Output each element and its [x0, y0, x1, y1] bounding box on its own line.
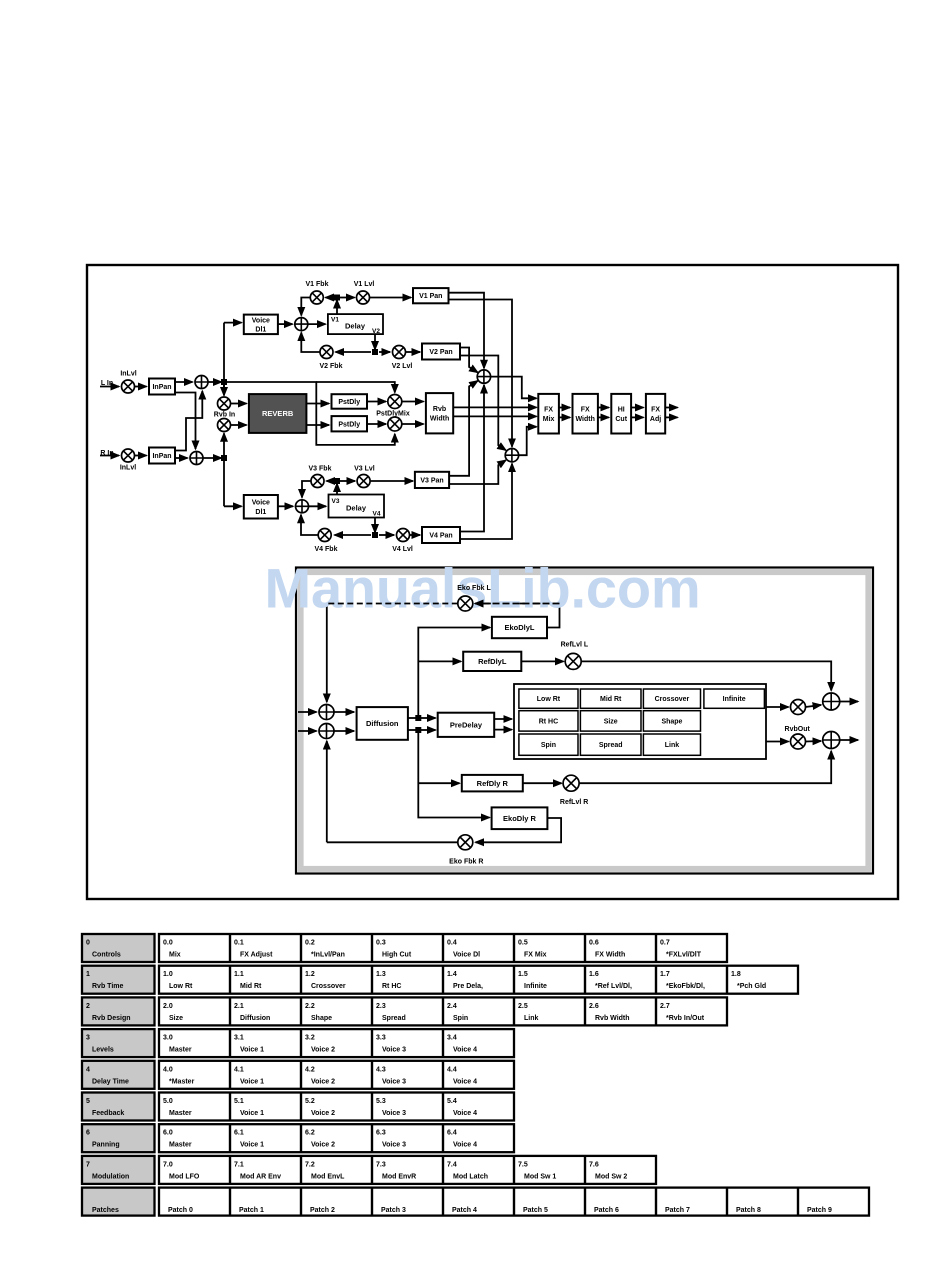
wire Hi Cut to FX Adj R	[631, 416, 643, 418]
svg-text:4.4: 4.4	[447, 1066, 457, 1073]
svg-text:Spread: Spread	[382, 1015, 406, 1022]
wire InLvl L to InPan L	[135, 386, 147, 388]
svg-text:Master: Master	[169, 1110, 192, 1117]
svg-text:Voice 3: Voice 3	[382, 1047, 406, 1054]
wire Hi Cut to FX Adj L	[631, 407, 643, 409]
multiplier PstDlyMix bottom	[388, 417, 402, 431]
svg-text:V4 Fbk: V4 Fbk	[315, 546, 338, 553]
wire FX Adj out R	[665, 416, 677, 418]
svg-text:V2 Fbk: V2 Fbk	[320, 363, 343, 370]
svg-text:FX Adjust: FX Adjust	[240, 952, 273, 959]
svg-text:7.2: 7.2	[305, 1161, 315, 1168]
wire V4 Pan L to mix sum L	[460, 385, 484, 532]
svg-text:Spin: Spin	[453, 1015, 468, 1022]
wire out R	[840, 739, 858, 741]
wire detail input L	[298, 711, 317, 713]
svg-text:EkoDly R: EkoDly R	[503, 814, 537, 823]
svg-text:Mod EnvR: Mod EnvR	[382, 1173, 416, 1180]
wire riser down to EkoDly R	[418, 730, 489, 818]
box V4 Pan	[422, 527, 460, 543]
svg-text:V1 Lvl: V1 Lvl	[354, 281, 375, 288]
grid cell Mid Rt	[580, 689, 641, 708]
svg-text:0: 0	[86, 940, 90, 947]
box V2 Pan	[422, 344, 460, 360]
svg-text:Mod LFO: Mod LFO	[169, 1173, 200, 1180]
svg-text:HI: HI	[618, 407, 625, 414]
multiplier PstDlyMix top	[388, 395, 402, 409]
svg-text:V2 Lvl: V2 Lvl	[392, 363, 413, 370]
svg-text:Mod Sw 1: Mod Sw 1	[524, 1173, 556, 1180]
svg-text:Crossover: Crossover	[655, 696, 690, 703]
svg-text:Delay Time: Delay Time	[92, 1078, 129, 1085]
wire Voice Dl1 to V1 sum	[278, 323, 293, 325]
wire V4 tap down	[374, 518, 376, 533]
svg-text:Patch 6: Patch 6	[594, 1207, 619, 1214]
wire mix sum L to FX Mix	[491, 377, 537, 399]
svg-text:3.4: 3.4	[447, 1035, 457, 1042]
multiplier Rvb In bottom	[218, 419, 231, 432]
box V1 Delay	[328, 314, 383, 335]
svg-text:Patch 1: Patch 1	[239, 1207, 264, 1214]
grid cell Crossover	[643, 689, 700, 708]
wire V3 Pan L to mix sum L	[449, 381, 478, 476]
wire Eko Fbk R to detail sum R	[326, 741, 328, 842]
multiplier RefLvl R	[563, 775, 579, 791]
svg-text:Link: Link	[665, 742, 679, 749]
wire V3 tap to V3 Lvl	[340, 480, 355, 482]
svg-text:2: 2	[86, 1003, 90, 1010]
box PstDly top	[332, 394, 368, 409]
svg-text:5.1: 5.1	[234, 1098, 244, 1105]
wire V2 Pan R to mix sum R	[460, 356, 506, 451]
junction trunk R	[221, 455, 227, 461]
wire RefDly R to RefLvl R	[523, 782, 562, 784]
svg-text:7.1: 7.1	[234, 1161, 244, 1168]
multiplier Rvb In top	[218, 397, 231, 410]
svg-text:0.1: 0.1	[234, 940, 244, 947]
svg-text:V3 Pan: V3 Pan	[420, 477, 443, 484]
multiplier V3 Lvl	[357, 475, 370, 488]
multiplier RefLvl L	[565, 653, 581, 669]
wire V2 tap down	[374, 334, 376, 349]
wire Eko Fbk R to left riser	[327, 841, 458, 843]
svg-text:Rvb Time: Rvb Time	[92, 983, 123, 990]
svg-text:V3 Lvl: V3 Lvl	[354, 466, 375, 473]
wire V2 Lvl to V2 Pan	[406, 351, 420, 353]
wire PreDelay out top	[494, 718, 512, 720]
wire Diffusion out bottom	[408, 729, 416, 731]
box Voice Dl1 bottom	[244, 495, 278, 519]
wire Voice Dl1 to V3 sum	[278, 505, 293, 507]
svg-text:3.3: 3.3	[376, 1035, 386, 1042]
svg-text:6: 6	[86, 1130, 90, 1137]
wire mix sum R to FX Mix	[519, 427, 537, 455]
svg-text:*Master: *Master	[169, 1078, 195, 1085]
svg-text:FX: FX	[651, 407, 660, 414]
svg-text:Modulation: Modulation	[92, 1173, 129, 1180]
svg-text:7: 7	[86, 1161, 90, 1168]
svg-text:Pre Dela,: Pre Dela,	[453, 983, 483, 990]
box HI Cut	[611, 394, 631, 434]
svg-text:0.6: 0.6	[589, 940, 599, 947]
box RefDlyL	[463, 652, 521, 671]
svg-text:6.4: 6.4	[447, 1130, 457, 1137]
svg-text:6.0: 6.0	[163, 1130, 173, 1137]
svg-text:Crossover: Crossover	[311, 983, 346, 990]
wire V3 Pan R to mix sum R	[449, 460, 506, 484]
grid cell Shape	[643, 711, 700, 731]
svg-text:Delay: Delay	[345, 322, 366, 331]
svg-text:Voice 4: Voice 4	[453, 1110, 477, 1117]
wire V1 Fbk to V1 sum	[301, 298, 310, 316]
box V1 Pan	[413, 288, 449, 303]
wire Rvb In top to REVERB	[231, 403, 247, 405]
wire trunk into Rvb In mult top	[223, 384, 225, 396]
svg-text:4.1: 4.1	[234, 1066, 244, 1073]
svg-text:1.3: 1.3	[376, 971, 386, 978]
summing node V1 sum	[295, 318, 308, 331]
svg-text:4: 4	[86, 1066, 90, 1073]
box InPan R	[149, 448, 175, 464]
svg-text:4.0: 4.0	[163, 1066, 173, 1073]
box InPan L	[149, 379, 175, 395]
svg-text:0.7: 0.7	[660, 940, 670, 947]
multiplier V3 Fbk	[311, 475, 324, 488]
svg-text:1.1: 1.1	[234, 971, 244, 978]
multiplier Eko Fbk L	[458, 596, 473, 611]
svg-text:Dl1: Dl1	[255, 509, 266, 516]
outer figure frame	[87, 265, 898, 899]
svg-text:2.6: 2.6	[589, 1003, 599, 1010]
wire riser to RefDly R	[418, 782, 459, 784]
svg-text:Voice 2: Voice 2	[311, 1047, 335, 1054]
box FX Mix	[538, 394, 559, 434]
svg-text:*Ref Lvl/Dl,: *Ref Lvl/Dl,	[595, 983, 632, 990]
svg-text:*FXLvl/DlT: *FXLvl/DlT	[666, 952, 702, 959]
svg-text:2.0: 2.0	[163, 1003, 173, 1010]
svg-text:PreDelay: PreDelay	[450, 721, 483, 730]
svg-text:Size: Size	[604, 718, 618, 725]
svg-text:Rvb Design: Rvb Design	[92, 1015, 131, 1022]
svg-text:InPan: InPan	[152, 384, 171, 391]
svg-text:Voice 1: Voice 1	[240, 1047, 264, 1054]
svg-text:Patch 2: Patch 2	[310, 1207, 335, 1214]
svg-text:EkoDlyL: EkoDlyL	[504, 623, 534, 632]
svg-text:Mid Rt: Mid Rt	[240, 983, 262, 990]
svg-text:Shape: Shape	[311, 1015, 332, 1022]
svg-text:V3: V3	[332, 498, 340, 505]
svg-text:Voice 1: Voice 1	[240, 1142, 264, 1149]
svg-text:1.6: 1.6	[589, 971, 599, 978]
svg-text:7.6: 7.6	[589, 1161, 599, 1168]
svg-text:Patches: Patches	[92, 1207, 119, 1214]
svg-text:Rt HC: Rt HC	[382, 983, 401, 990]
wire InLvl R to InPan R	[135, 455, 147, 457]
box EkoDly R	[492, 807, 548, 829]
wire detail sum R to Diffusion	[334, 730, 354, 732]
wire V1 tap up	[336, 300, 338, 314]
wire V4 tap to V4 Fbk	[335, 534, 372, 536]
box PstDly bottom	[332, 416, 368, 431]
wire trunk into Rvb In mult bottom	[223, 433, 225, 441]
svg-text:FX: FX	[581, 407, 590, 414]
svg-text:Rvb Width: Rvb Width	[595, 1015, 630, 1022]
svg-text:*InLvl/Pan: *InLvl/Pan	[311, 952, 345, 959]
wire to PreDelay bottom	[421, 729, 436, 731]
svg-text:V2 Pan: V2 Pan	[429, 349, 452, 356]
svg-text:5.0: 5.0	[163, 1098, 173, 1105]
wire detail sum L to Diffusion	[334, 711, 354, 713]
multiplier RvbOut R	[791, 734, 806, 749]
multiplier InLvl R	[122, 449, 135, 462]
wire V2 tap to V2 Fbk	[336, 351, 372, 353]
svg-text:0.0: 0.0	[163, 940, 173, 947]
table row Rvb Time	[82, 966, 798, 994]
svg-text:*EkoFbk/Dl,: *EkoFbk/Dl,	[666, 983, 705, 990]
svg-text:Low Rt: Low Rt	[169, 983, 193, 990]
wire Eko Fbk L to riser overlay	[327, 603, 458, 605]
table row Feedback	[82, 1093, 514, 1121]
svg-text:PstDly: PstDly	[338, 421, 360, 428]
svg-text:Low Rt: Low Rt	[537, 696, 561, 703]
svg-text:Voice 3: Voice 3	[382, 1078, 406, 1085]
multiplier V1 Lvl	[357, 291, 370, 304]
svg-text:Mod AR Env: Mod AR Env	[240, 1173, 281, 1180]
wire V3 Fbk to V3 sum	[302, 481, 311, 498]
svg-text:Dl1: Dl1	[255, 327, 266, 334]
svg-text:0.5: 0.5	[518, 940, 528, 947]
svg-text:7.4: 7.4	[447, 1161, 457, 1168]
svg-text:RefDly R: RefDly R	[477, 779, 509, 788]
wire V1 tap to V1 Fbk	[326, 297, 335, 299]
svg-text:Voice Dl: Voice Dl	[453, 952, 480, 959]
wire trunk vertical	[223, 323, 225, 507]
svg-text:FX Mix: FX Mix	[524, 952, 547, 959]
wire V3 sum to V3 Delay	[309, 505, 327, 507]
svg-text:V4: V4	[373, 511, 381, 518]
box V3 Pan	[415, 472, 449, 488]
wire PstDly top to mix mult	[367, 401, 386, 403]
svg-text:RefLvl L: RefLvl L	[561, 642, 589, 649]
table row Patches	[82, 1188, 869, 1216]
wire FX Mix to FX Width R	[559, 416, 570, 418]
svg-text:Voice 1: Voice 1	[240, 1078, 264, 1085]
table row Delay Time	[82, 1061, 514, 1089]
svg-text:RefLvl R: RefLvl R	[560, 799, 588, 806]
svg-text:FX Width: FX Width	[595, 952, 625, 959]
svg-text:Rvb In: Rvb In	[214, 412, 235, 419]
svg-text:6.2: 6.2	[305, 1130, 315, 1137]
svg-text:Rt HC: Rt HC	[539, 718, 558, 725]
svg-text:Size: Size	[169, 1015, 183, 1022]
svg-text:V3 Fbk: V3 Fbk	[309, 466, 332, 473]
wire Eko Fbk L to detail sum L	[326, 604, 328, 703]
svg-text:V2: V2	[372, 328, 380, 335]
svg-text:Infinite: Infinite	[524, 983, 547, 990]
junction V2 tap	[372, 349, 378, 355]
wire FX Width to Hi Cut L	[598, 407, 609, 409]
svg-text:Voice 4: Voice 4	[453, 1047, 477, 1054]
svg-text:InPan: InPan	[152, 453, 171, 460]
svg-text:0.4: 0.4	[447, 940, 457, 947]
svg-text:*Rvb In/Out: *Rvb In/Out	[666, 1015, 705, 1022]
svg-text:Spin: Spin	[541, 742, 556, 749]
svg-text:Mix: Mix	[169, 952, 181, 959]
wire InPan R top out cross to L sum	[175, 391, 202, 451]
svg-text:5.4: 5.4	[447, 1098, 457, 1105]
wire to PreDelay top	[421, 717, 436, 719]
wire V2 Pan L to mix sum L	[460, 348, 478, 373]
svg-text:Master: Master	[169, 1047, 192, 1054]
svg-text:1.7: 1.7	[660, 971, 670, 978]
wire riser to RefDlyL	[418, 660, 461, 662]
box PreDelay	[438, 713, 495, 737]
junction Diffusion out bottom	[415, 727, 421, 733]
wire EkoDlyL to Eko Fbk L	[475, 604, 560, 628]
svg-text:InLvl: InLvl	[120, 465, 136, 472]
svg-text:Patch 4: Patch 4	[452, 1207, 477, 1214]
wire V4 tap to V4 Lvl	[379, 534, 394, 536]
svg-text:0.2: 0.2	[305, 940, 315, 947]
svg-text:Mod Latch: Mod Latch	[453, 1173, 488, 1180]
svg-text:Levels: Levels	[92, 1047, 114, 1054]
wire Rvb Width out top to FX Mix	[453, 406, 536, 408]
wire V1 Lvl to V1 Pan	[370, 297, 411, 299]
svg-text:7.3: 7.3	[376, 1161, 386, 1168]
svg-text:1.4: 1.4	[447, 971, 457, 978]
summing node mix sum R	[505, 449, 518, 462]
wire Rvb In bottom to REVERB	[231, 424, 247, 426]
wire RefLvl L to out sum L	[581, 661, 831, 690]
svg-text:Feedback: Feedback	[92, 1110, 124, 1117]
summing node mix sum L	[477, 370, 490, 383]
svg-text:Cut: Cut	[615, 416, 627, 423]
wire RvbOut L to out sum L	[806, 705, 822, 707]
wire out L	[840, 701, 858, 703]
svg-text:Voice 3: Voice 3	[382, 1142, 406, 1149]
svg-text:Rvb: Rvb	[433, 406, 446, 413]
wire V3 Lvl to V3 Pan	[371, 480, 413, 482]
svg-text:Mix: Mix	[543, 416, 555, 423]
wire RvbOut R to out sum R	[806, 740, 822, 743]
grid cell Spin	[519, 734, 578, 755]
svg-text:2.2: 2.2	[305, 1003, 315, 1010]
box EkoDlyL	[492, 617, 547, 638]
svg-text:Master: Master	[169, 1142, 192, 1149]
multiplier V2 Fbk	[320, 346, 333, 359]
svg-text:2.1: 2.1	[234, 1003, 244, 1010]
box Rvb Width	[426, 393, 453, 433]
svg-text:Voice 4: Voice 4	[453, 1078, 477, 1085]
junction V3 tap	[334, 478, 340, 484]
svg-text:High Cut: High Cut	[382, 952, 412, 959]
table row Levels	[82, 1029, 514, 1057]
svg-text:1.0: 1.0	[163, 971, 173, 978]
svg-text:Voice 2: Voice 2	[311, 1110, 335, 1117]
wire EkoDly R to Eko Fbk R	[476, 818, 562, 842]
wire V1 Pan R to mix sum R	[449, 300, 513, 447]
wire FX Adj out L	[665, 407, 677, 409]
wire EkoDlyL to Eko Fbk L overlay	[475, 603, 560, 605]
svg-text:7.5: 7.5	[518, 1161, 528, 1168]
wire RefDlyL to RefLvl L	[521, 660, 563, 662]
wire FX Mix to FX Width L	[559, 407, 570, 409]
grid cell Low Rt	[519, 689, 578, 708]
svg-text:0.3: 0.3	[376, 940, 386, 947]
svg-text:V4 Lvl: V4 Lvl	[392, 546, 413, 553]
box FX Width	[573, 394, 598, 434]
svg-text:Eko Fbk R: Eko Fbk R	[449, 859, 483, 866]
parameter grid frame	[514, 684, 766, 759]
multiplier V1 Fbk	[310, 291, 323, 304]
svg-text:Eko Fbk L: Eko Fbk L	[457, 585, 491, 592]
wire Rvb Width out bottom to FX Mix	[453, 415, 536, 417]
wire REVERB out bottom to PstDly	[306, 424, 329, 426]
svg-text:V4 Pan: V4 Pan	[429, 533, 452, 540]
svg-text:4.2: 4.2	[305, 1066, 315, 1073]
wire mix mult bottom to Rvb Width	[402, 423, 424, 425]
wire V1 sum to V1 Delay	[308, 323, 326, 325]
junction V4 tap	[372, 532, 378, 538]
grid cell Spread	[580, 734, 641, 755]
table row Rvb Design	[82, 997, 727, 1025]
summing node detail sum R	[319, 724, 334, 739]
table row Panning	[82, 1124, 514, 1152]
wire V2 Fbk to V1 sum	[301, 333, 319, 353]
wire dry bypass to top mix mult	[316, 382, 395, 393]
svg-text:Mod EnvL: Mod EnvL	[311, 1173, 345, 1180]
grid cell Infinite	[704, 689, 765, 708]
junction V1 tap	[334, 295, 340, 301]
svg-text:Voice 2: Voice 2	[311, 1078, 335, 1085]
multiplier V4 Fbk	[318, 529, 331, 542]
summing node input sum L	[195, 376, 208, 389]
reverb detail frame	[296, 568, 873, 874]
svg-text:V1: V1	[331, 317, 339, 324]
svg-text:2.7: 2.7	[660, 1003, 670, 1010]
wire dry bypass to bottom mix mult	[224, 382, 395, 445]
svg-text:Diffusion: Diffusion	[240, 1015, 270, 1022]
svg-text:Delay: Delay	[346, 504, 367, 513]
wire grid out R to RvbOut	[766, 741, 789, 743]
svg-text:Mod Sw 2: Mod Sw 2	[595, 1173, 627, 1180]
svg-text:Link: Link	[524, 1015, 538, 1022]
svg-text:3.0: 3.0	[163, 1035, 173, 1042]
wire detail input R	[298, 730, 317, 732]
box REVERB	[249, 394, 307, 433]
svg-text:*Pch Gld: *Pch Gld	[737, 983, 766, 990]
summing node detail sum L	[319, 705, 334, 720]
svg-text:Diffusion: Diffusion	[366, 719, 399, 728]
grid cell Link	[643, 734, 700, 755]
svg-text:Patch 7: Patch 7	[665, 1207, 690, 1214]
svg-text:2.3: 2.3	[376, 1003, 386, 1010]
svg-text:5: 5	[86, 1098, 90, 1105]
svg-text:InLvl: InLvl	[120, 371, 136, 378]
svg-text:Voice 4: Voice 4	[453, 1142, 477, 1149]
summing node out sum L	[823, 693, 840, 710]
svg-text:1.8: 1.8	[731, 971, 741, 978]
svg-text:1: 1	[86, 971, 90, 978]
svg-text:6.1: 6.1	[234, 1130, 244, 1137]
wire mix mult top to Rvb Width	[402, 401, 424, 403]
svg-text:2.4: 2.4	[447, 1003, 457, 1010]
wire InPan L bottom out cross to R sum	[175, 393, 196, 450]
svg-text:6.3: 6.3	[376, 1130, 386, 1137]
table row Modulation	[82, 1156, 656, 1184]
svg-text:3.1: 3.1	[234, 1035, 244, 1042]
junction trunk L	[221, 379, 227, 385]
